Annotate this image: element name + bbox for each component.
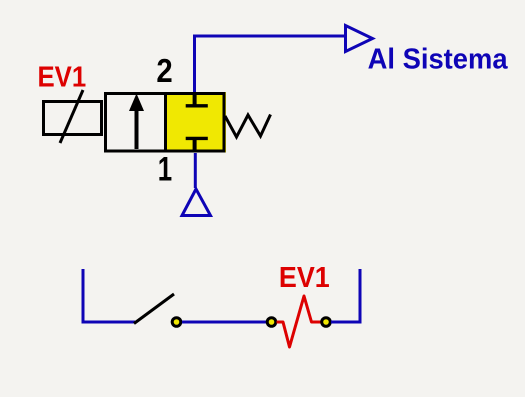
solenoid diagonal stroke	[60, 90, 83, 143]
solenoid coil symbol	[44, 102, 102, 135]
valve body: energized chamber (yellow, closed)	[165, 92, 226, 153]
wire: right rail of control circuit	[331, 269, 360, 322]
port 1 blocked symbol (bottom T)	[186, 137, 208, 140]
wire: port 2 to output arrow	[195, 36, 346, 92]
node: coil right terminal	[322, 318, 331, 327]
coil EV1 (red pulse symbol)	[277, 296, 321, 347]
svg-text:EV1: EV1	[279, 262, 330, 294]
svg-text:Al Sistema: Al Sistema	[368, 43, 509, 75]
switch contact (open, black blade)	[134, 294, 174, 324]
return spring	[225, 115, 271, 138]
wire: port 1 to exhaust	[194, 153, 197, 188]
node: coil left terminal	[267, 318, 276, 327]
svg-text:EV1: EV1	[38, 62, 87, 94]
exhaust symbol (open triangle)	[182, 189, 211, 216]
valve body outline	[106, 94, 225, 152]
svg-text:2: 2	[156, 52, 172, 89]
node: switch terminal	[172, 318, 181, 327]
wire: left rail of control circuit	[83, 269, 135, 322]
valve body: chamber divider	[164, 92, 167, 153]
svg-text:1: 1	[158, 151, 172, 189]
port 2 blocked symbol (top T)	[193, 92, 197, 106]
wire: switch to coil	[182, 321, 266, 324]
flow arrow (open path, left chamber)	[135, 106, 139, 149]
output arrow head (open triangle)	[346, 26, 373, 52]
